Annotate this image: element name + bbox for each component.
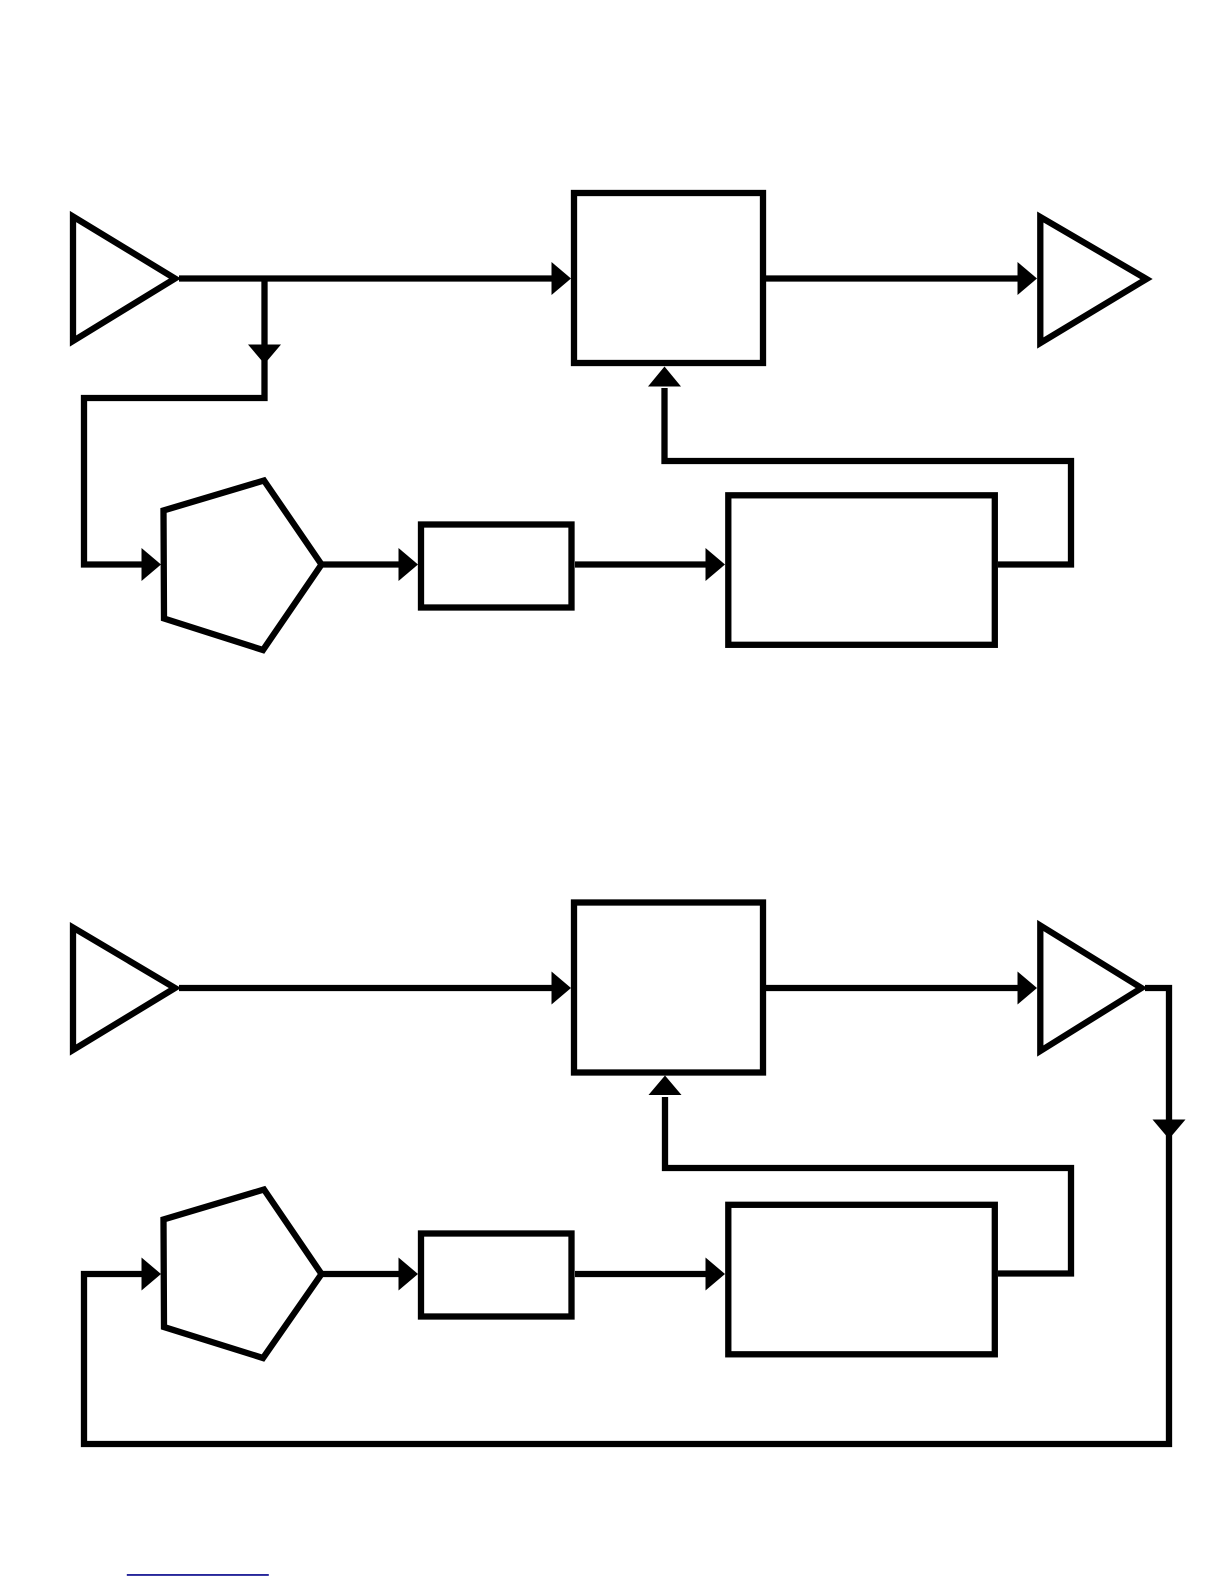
wire feedback from block C2 up into block A2 (649, 1076, 1072, 1274)
wire main input line diagram 1 (179, 262, 571, 295)
wire block A2 output to amplifier U4 (766, 972, 1037, 1005)
block A2 (variable gain block, bottom square) (574, 903, 763, 1073)
block B1 (small rectangle, top diagram) (421, 525, 572, 608)
wire main input line diagram 2 (179, 972, 571, 1005)
wire feedback from block C1 up into block A1 (648, 367, 1071, 565)
pentagon P1 (detector, top diagram) (164, 481, 322, 651)
block A1 (variable gain block, top square) (574, 193, 763, 363)
amplifier U1 (top-left triangle) (73, 217, 175, 342)
pentagon P2 (detector, bottom diagram) (164, 1190, 322, 1359)
amplifier U2 (top-right triangle) (1040, 217, 1146, 343)
amplifier U3 (bottom-left triangle) (73, 928, 175, 1051)
block C1 (large rectangle, top diagram) (728, 495, 995, 645)
wire outer feedback from amplifier U4 output around to pentagon P2 (84, 988, 1186, 1444)
wire pentagon P1 output to block B1 (321, 548, 418, 581)
amplifier U4 (bottom-right triangle) (1040, 926, 1141, 1052)
block B2 (small rectangle, bottom diagram) (421, 1234, 572, 1317)
wire block B1 output to block C1 (575, 548, 725, 581)
block C2 (large rectangle, bottom diagram) (728, 1205, 995, 1355)
wire branch from input down to pentagon P1 (84, 279, 281, 582)
wire block B2 output to block C2 (575, 1258, 725, 1291)
wire block A1 output to amplifier U2 (766, 262, 1037, 295)
hyperlink underline at page bottom (127, 1574, 269, 1576)
wire pentagon P2 output to block B2 (321, 1258, 418, 1291)
